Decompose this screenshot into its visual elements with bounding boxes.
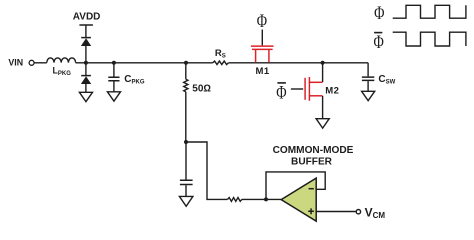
op-amp minus pin xyxy=(309,188,314,190)
waveform phi xyxy=(393,5,466,18)
wire node to CPKG xyxy=(113,63,115,77)
wire phi to M1 gate xyxy=(261,30,263,46)
wire M2 source to ground xyxy=(322,96,324,118)
waveform phi-bar xyxy=(393,32,466,46)
power bar AVDD xyxy=(79,24,93,26)
svg-text:COMMON-MODE: COMMON-MODE xyxy=(273,145,354,156)
capacitor (bottom) xyxy=(180,180,193,184)
ground (under M2) xyxy=(316,119,329,128)
ground (under CSW) xyxy=(362,91,375,100)
wire D2 to ground xyxy=(85,84,87,92)
wire phibar to M2 gate xyxy=(291,88,303,90)
wire node to buffer path xyxy=(186,142,228,199)
transistor M2 xyxy=(305,77,323,101)
svg-text:LPKG: LPKG xyxy=(53,66,72,78)
node junction at diode column xyxy=(84,61,88,65)
transistor M1 xyxy=(251,46,274,62)
svg-text:VIN: VIN xyxy=(8,58,23,68)
op-amp U1 common-mode buffer xyxy=(281,178,316,221)
wire rail corner down to CSW xyxy=(367,63,369,77)
wire M2 drain to rail xyxy=(322,63,324,82)
wire op-amp output to VCM xyxy=(316,211,355,213)
resistor (buffer output) xyxy=(228,198,242,202)
capacitor CPKG xyxy=(108,77,119,80)
svg-text:VCM: VCM xyxy=(365,206,386,221)
wire main rail xyxy=(34,62,368,64)
svg-text:RS: RS xyxy=(215,48,226,60)
svg-text:Φ: Φ xyxy=(374,3,384,24)
wire CSW to ground xyxy=(367,81,369,91)
wire 50ohm down to bottom node xyxy=(185,92,187,142)
inductor LPKG xyxy=(47,58,76,63)
svg-text:Φ: Φ xyxy=(276,83,286,104)
wire D1 to node xyxy=(85,46,87,63)
wire node to bottom capacitor xyxy=(185,142,187,180)
resistor 50ohm xyxy=(184,79,188,92)
diode D2 (from ground) xyxy=(81,75,91,77)
terminal VCM xyxy=(356,210,360,214)
diode D1 (to AVDD) xyxy=(81,37,91,39)
wire node to diode D2 xyxy=(85,63,87,75)
ground (under D2) xyxy=(79,92,92,101)
ground (under CPKG) xyxy=(107,92,120,101)
op-amp plus pin xyxy=(308,208,314,214)
wire capacitor to ground xyxy=(185,185,187,196)
svg-text:BUFFER: BUFFER xyxy=(291,157,333,168)
node junction at M2 branch xyxy=(321,61,325,65)
node junction at CPKG xyxy=(112,61,116,65)
capacitor CSW xyxy=(362,77,374,80)
wire node to 50ohm resistor xyxy=(185,63,187,79)
node junction feedback xyxy=(264,197,268,201)
node junction bottom left xyxy=(184,140,188,144)
svg-text:Φ: Φ xyxy=(374,32,384,53)
svg-text:50Ω: 50Ω xyxy=(192,84,211,95)
node junction at 50ohm xyxy=(184,61,188,65)
svg-text:Φ: Φ xyxy=(257,11,267,32)
svg-text:CPKG: CPKG xyxy=(124,74,145,86)
svg-text:M1: M1 xyxy=(256,66,270,77)
svg-text:M2: M2 xyxy=(325,85,339,96)
wire AVDD to diode D1 xyxy=(85,25,87,37)
wire CPKG to ground xyxy=(113,81,115,91)
ground (bottom left) xyxy=(179,196,193,206)
resistor RS xyxy=(213,61,229,65)
wire resistor to op-amp node xyxy=(242,198,281,200)
VIN terminal xyxy=(29,60,34,65)
svg-text:AVDD: AVDD xyxy=(73,12,101,23)
wire feedback loop xyxy=(266,172,325,200)
svg-text:CSW: CSW xyxy=(378,74,395,86)
